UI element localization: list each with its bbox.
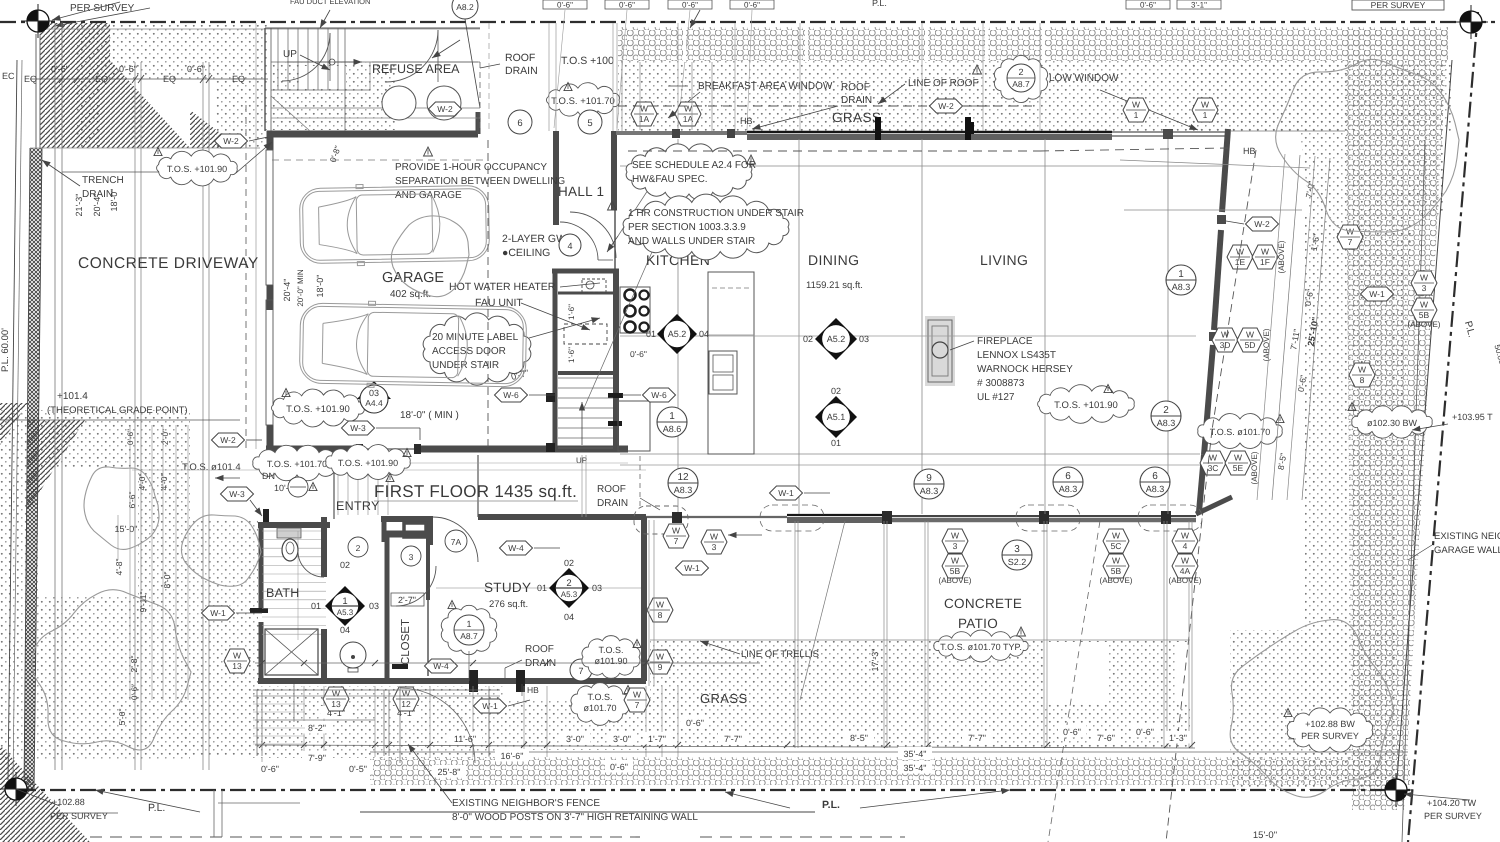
svg-text:17'-3": 17'-3" (870, 649, 880, 672)
svg-text:T.O.S +100: T.O.S +100 (561, 55, 614, 67)
svg-text:13: 13 (331, 699, 341, 709)
svg-text:04: 04 (564, 612, 574, 622)
top band extension verticals (677, 23, 679, 131)
floor grid verticals (677, 139, 679, 514)
svg-text:DRAIN: DRAIN (82, 189, 113, 200)
W-2 hex garage corner (215, 134, 248, 148)
svg-text:FAU DUCT ELEVATION: FAU DUCT ELEVATION (290, 0, 370, 6)
wall: closet (384, 531, 431, 538)
svg-text:GARAGE WALL: GARAGE WALL (1434, 545, 1500, 556)
wall: top window band (1112, 131, 1228, 133)
refuse dashed boundary (477, 112, 479, 134)
svg-text:DRAIN: DRAIN (841, 95, 872, 106)
svg-text:A8.3: A8.3 (920, 486, 939, 496)
svg-text:01: 01 (646, 329, 656, 339)
svg-text:01: 01 (831, 438, 841, 448)
svg-text:3'-0": 3'-0" (613, 734, 631, 744)
svg-text:LENNOX LS435T: LENNOX LS435T (977, 350, 1056, 361)
kitchen island (708, 272, 754, 454)
grass window posts (875, 117, 881, 140)
right garden horizontals (1120, 160, 1310, 168)
svg-text:12: 12 (401, 699, 411, 709)
hall wall extensions up (548, 23, 550, 131)
floor grid horizontals (620, 165, 1222, 167)
svg-text:T.O.S.: T.O.S. (587, 692, 612, 702)
refuse bins (382, 86, 416, 120)
hatched corner bottom-left (0, 745, 90, 842)
svg-text:A8.7: A8.7 (460, 631, 478, 641)
svg-text:5E: 5E (1233, 463, 1244, 473)
svg-text:4: 4 (567, 241, 572, 251)
svg-text:6: 6 (517, 118, 522, 129)
patio post verticals (794, 521, 796, 748)
svg-text:A8.2: A8.2 (456, 2, 474, 12)
right dashed line long (1212, 150, 1256, 430)
circle 1/A8.6 (657, 407, 687, 437)
svg-text:LOW WINDOW: LOW WINDOW (1049, 73, 1119, 84)
svg-text:04: 04 (699, 329, 709, 339)
svg-text:16'-6": 16'-6" (501, 751, 524, 761)
hatched bank mid-left (27, 420, 85, 512)
W-13 hex (224, 649, 250, 673)
svg-text:PER SURVEY: PER SURVEY (1424, 811, 1482, 821)
svg-text:A5.2: A5.2 (668, 329, 687, 339)
patio slant dashes (1048, 521, 1100, 842)
svg-text:1'-7": 1'-7" (648, 734, 666, 744)
svg-text:1: 1 (466, 619, 471, 629)
svg-text:ENTRY: ENTRY (336, 499, 380, 513)
svg-text:7: 7 (1348, 237, 1353, 247)
svg-text:4: 4 (1183, 541, 1188, 551)
svg-text:7: 7 (635, 700, 640, 710)
svg-text:8'-0": 8'-0" (162, 572, 172, 589)
fence line right (1396, 60, 1452, 792)
svg-text:(ABOVE): (ABOVE) (1169, 576, 1202, 585)
svg-text:WARNOCK HERSEY: WARNOCK HERSEY (977, 364, 1073, 375)
diamond A5.3 study (549, 568, 589, 608)
svg-text:A5.1: A5.1 (827, 412, 846, 422)
water heater dashed (582, 279, 606, 292)
svg-text:8: 8 (658, 610, 663, 620)
svg-text:W: W (951, 556, 959, 566)
svg-text:T.O.S. +101.90: T.O.S. +101.90 (1054, 400, 1118, 411)
+102.30 BW oval (1352, 406, 1432, 438)
svg-text:W: W (1209, 453, 1217, 463)
deck door arc 2 (386, 30, 438, 82)
svg-text:EC: EC (2, 71, 15, 81)
svg-text:W-2: W-2 (1254, 219, 1270, 229)
top dashed roofline (618, 105, 1032, 107)
svg-text:0'-6": 0'-6" (682, 1, 698, 10)
W-4 hex study top (500, 541, 533, 555)
svg-text:0'-6": 0'-6" (1140, 1, 1156, 10)
svg-text:03: 03 (369, 388, 379, 398)
shower (265, 629, 318, 675)
svg-text:(ABOVE): (ABOVE) (1250, 451, 1259, 484)
svg-text:0'-5": 0'-5" (349, 764, 367, 774)
note 1hr construction cloud (623, 194, 789, 260)
grass texture top band (618, 27, 1448, 61)
bottom wall windows W-13/W-12 (276, 677, 320, 685)
svg-text:ø101.70: ø101.70 (583, 703, 616, 713)
svg-text:25'-8": 25'-8" (438, 767, 461, 777)
note see schedule cloud (626, 144, 752, 200)
svg-text:0'-6": 0'-6" (630, 349, 647, 359)
W-6 hexes (495, 388, 528, 402)
svg-text:ROOF: ROOF (505, 52, 535, 64)
svg-text:T.O.S. ø101.4: T.O.S. ø101.4 (182, 462, 241, 473)
tos cloud below (571, 683, 629, 726)
svg-text:SEPARATION BETWEEN DWELLING: SEPARATION BETWEEN DWELLING (395, 176, 565, 187)
svg-text:EQ: EQ (232, 74, 245, 84)
svg-text:W: W (672, 526, 680, 536)
svg-text:SEE SCHEDULE A2.4 FOR: SEE SCHEDULE A2.4 FOR (632, 160, 756, 171)
svg-text:PER SURVEY: PER SURVEY (1371, 0, 1426, 10)
svg-text:(ABOVE): (ABOVE) (939, 576, 972, 585)
W-4 hex closet (425, 659, 458, 673)
svg-text:1'-6": 1'-6" (567, 304, 576, 320)
W-1 hex left (202, 606, 235, 620)
svg-text:●CEILING: ●CEILING (502, 247, 550, 259)
svg-text:HB: HB (527, 685, 539, 695)
svg-text:+102.88 BW: +102.88 BW (1305, 719, 1355, 729)
A8.7 callout grass (994, 55, 1047, 102)
svg-text:T.O.S.: T.O.S. (598, 645, 623, 655)
svg-text:9: 9 (926, 473, 932, 484)
dim ticks bottom (259, 742, 265, 748)
svg-text:T.O.S. ø101.70: T.O.S. ø101.70 (1210, 427, 1271, 437)
svg-text:W: W (1246, 330, 1254, 340)
svg-text:02: 02 (564, 558, 574, 568)
svg-text:A5.2: A5.2 (827, 334, 846, 344)
svg-text:HB: HB (740, 116, 753, 126)
svg-text:ROOF: ROOF (841, 82, 870, 93)
svg-text:T.O.S. +101.90: T.O.S. +101.90 (167, 164, 227, 174)
bottom dim texts row1 (321, 706, 351, 719)
svg-text:FIREPLACE: FIREPLACE (977, 336, 1033, 347)
survey point SW (0, 772, 33, 806)
circle 6/A8.3 a (1053, 467, 1083, 497)
svg-text:02: 02 (340, 560, 350, 570)
svg-text:DN: DN (262, 471, 275, 481)
trench drain strip (24, 148, 42, 790)
svg-text:0'-6": 0'-6" (261, 764, 279, 774)
svg-text:S2.2: S2.2 (1008, 557, 1027, 567)
svg-text:2: 2 (1163, 405, 1169, 416)
circle 6 (508, 110, 532, 134)
circle 12/A8.3 (668, 468, 698, 498)
svg-text:0'-6": 0'-6" (51, 64, 69, 74)
right wall hex clusters (1227, 245, 1253, 269)
svg-text:3: 3 (712, 542, 717, 552)
svg-text:4A: 4A (1180, 566, 1191, 576)
planting texture left band (0, 410, 190, 760)
tos 101.70 cloud top (547, 83, 620, 118)
svg-text:PER SURVEY: PER SURVEY (1301, 731, 1359, 741)
svg-text:W: W (1181, 556, 1189, 566)
svg-text:2: 2 (566, 578, 571, 589)
tos 101.90 cloud garage (272, 389, 365, 427)
svg-text:2'-7": 2'-7" (398, 595, 416, 605)
svg-text:1A: 1A (639, 114, 650, 124)
svg-text:(ABOVE): (ABOVE) (1277, 240, 1286, 273)
svg-text:18'-0" ( MIN ): 18'-0" ( MIN ) (400, 410, 459, 421)
bottom dim lines (255, 662, 760, 664)
tree blob right bottom (1230, 620, 1394, 798)
cloud 1/A8.7 study (441, 605, 496, 654)
svg-text:STUDY: STUDY (484, 580, 531, 595)
svg-text:W-3: W-3 (350, 423, 366, 433)
wall: study right (641, 517, 647, 681)
wall: garage right (553, 131, 559, 225)
diamond A5.3 bath (325, 586, 365, 626)
stove (620, 287, 650, 333)
survey point SE (1379, 773, 1413, 807)
svg-text:1'-3": 1'-3" (1169, 733, 1187, 743)
dining verticals light (620, 335, 1196, 337)
svg-text:FAU UNIT: FAU UNIT (475, 297, 523, 309)
svg-text:W-1: W-1 (210, 608, 226, 618)
svg-text:W: W (1420, 273, 1428, 283)
svg-text:(THEORETICAL GRADE POINT): (THEORETICAL GRADE POINT) (47, 405, 188, 416)
svg-text:W-4: W-4 (433, 661, 449, 671)
svg-text:03: 03 (592, 583, 602, 593)
svg-text:3: 3 (953, 541, 958, 551)
svg-text:W: W (656, 652, 664, 662)
svg-text:7'-6": 7'-6" (1097, 733, 1115, 743)
svg-text:+101.4: +101.4 (57, 391, 88, 402)
W hex stacks below wall (942, 529, 968, 553)
svg-text:3C: 3C (1208, 463, 1219, 473)
svg-text:1: 1 (669, 411, 675, 422)
svg-text:3: 3 (1014, 544, 1020, 555)
W-2 hex grass (930, 99, 963, 113)
car 1 (299, 182, 489, 266)
property line right slanted (1408, 12, 1478, 842)
svg-text:(ABOVE): (ABOVE) (1408, 320, 1441, 329)
car 2 (299, 300, 526, 390)
svg-text:6'-6": 6'-6" (127, 492, 137, 509)
svg-text:DINING: DINING (808, 252, 859, 268)
svg-text:0'-6": 0'-6" (1063, 727, 1081, 737)
svg-text:T.O.S. +101.70: T.O.S. +101.70 (267, 459, 327, 469)
top small dim boxes (543, 0, 587, 9)
svg-text:W-1: W-1 (1369, 289, 1385, 299)
closet dim (391, 593, 424, 606)
wall: top main (breakfast) (616, 131, 747, 135)
svg-text:2'-0": 2'-0" (161, 429, 170, 445)
svg-text:W: W (1112, 556, 1120, 566)
svg-text:1E: 1E (1235, 257, 1246, 267)
circle 7 (570, 659, 592, 681)
svg-text:W: W (656, 600, 664, 610)
roofline dash below wall (628, 150, 1040, 152)
1hr separation dashed (487, 140, 489, 449)
roof drain dashed box (634, 506, 688, 534)
svg-text:3'-0": 3'-0" (566, 734, 584, 744)
svg-text:PER SURVEY: PER SURVEY (50, 811, 108, 821)
svg-text:0'-6": 0'-6" (619, 1, 635, 10)
svg-text:1 HR CONSTRUCTION UNDER STAIR: 1 HR CONSTRUCTION UNDER STAIR (628, 208, 804, 219)
svg-text:EXISTING NEIGH: EXISTING NEIGH (1434, 531, 1500, 542)
svg-text:ø101.90: ø101.90 (594, 656, 627, 666)
svg-text:0'-6": 0'-6" (1136, 727, 1154, 737)
bottom secondary dashed line (90, 836, 640, 838)
svg-text:A5.3: A5.3 (337, 608, 354, 617)
left P.L. slanted (8, 60, 17, 780)
wall: top main dark (747, 131, 1112, 133)
svg-text:3: 3 (1422, 283, 1427, 293)
svg-text:W: W (633, 690, 641, 700)
wall: garage bottom (266, 446, 628, 453)
garage bottom window W-3 (362, 445, 414, 453)
svg-text:W: W (684, 104, 692, 114)
garage door panels (266, 150, 273, 285)
W13/W12 hexes (323, 687, 349, 711)
kitchen door arc from hall (570, 212, 616, 258)
tos 101.90 cloud living (1038, 385, 1135, 424)
svg-text:CONCRETE: CONCRETE (944, 596, 1022, 611)
wall: kitchen left (613, 271, 619, 452)
circle 2/A8.3 right (1151, 401, 1181, 431)
svg-text:6: 6 (1065, 471, 1071, 482)
svg-text:0'-6": 0'-6" (686, 718, 704, 728)
svg-text:0'-6": 0'-6" (744, 1, 760, 10)
svg-text:ROOF: ROOF (597, 484, 626, 495)
svg-text:W: W (1201, 100, 1209, 110)
label CONCRETE PATIO tos (934, 630, 1028, 662)
svg-text:LINE OF TRELLIS: LINE OF TRELLIS (741, 649, 819, 660)
svg-text:11'-6": 11'-6" (454, 734, 476, 744)
pedestal sink (340, 642, 366, 668)
W-7 hex (624, 688, 650, 712)
toilet tank (277, 528, 301, 538)
svg-text:P.L.: P.L. (872, 0, 887, 8)
wall: bottom living (sliders) (787, 514, 887, 516)
fireplace (925, 316, 955, 386)
tos cloud right (1198, 414, 1282, 449)
svg-text:2: 2 (356, 543, 361, 553)
W hexes right of study (647, 598, 673, 622)
leader diagonals hall (584, 252, 652, 408)
svg-text:W: W (1112, 531, 1120, 541)
svg-text:ø102.30 BW: ø102.30 BW (1367, 418, 1418, 428)
survey point NW (21, 4, 55, 38)
concrete texture bottom band (370, 757, 1410, 785)
breakfast verticals (639, 62, 641, 130)
svg-text:W-3: W-3 (229, 489, 245, 499)
circle 5 (578, 110, 602, 134)
W-3 hex left (221, 487, 254, 501)
svg-text:GARAGE: GARAGE (382, 270, 444, 286)
entry door arc (433, 517, 478, 562)
shrub left small (391, 216, 469, 297)
svg-text:20'-4": 20'-4" (282, 279, 292, 302)
svg-text:REFUSE AREA: REFUSE AREA (372, 62, 460, 76)
svg-text:7'-7": 7'-7" (968, 733, 986, 743)
svg-text:5: 5 (587, 118, 592, 129)
svg-text:A8.3: A8.3 (1172, 282, 1191, 292)
svg-text:P.L.: P.L. (822, 799, 840, 811)
svg-text:UL #127: UL #127 (977, 392, 1015, 403)
svg-text:P.L. 60.00': P.L. 60.00' (0, 328, 11, 372)
svg-text:UNDER STAIR: UNDER STAIR (432, 360, 499, 371)
svg-text:13: 13 (232, 661, 242, 671)
wall: garage left stubs (267, 131, 274, 150)
svg-text:W: W (1261, 247, 1269, 257)
svg-text:A8.3: A8.3 (1059, 484, 1078, 494)
svg-text:0'-6": 0'-6" (126, 429, 135, 445)
svg-text:A4.4: A4.4 (365, 398, 383, 408)
svg-text:8'-0" WOOD POSTS ON 3'-7" HIGH: 8'-0" WOOD POSTS ON 3'-7" HIGH RETAINING… (452, 812, 698, 823)
svg-text:T.O.S. +101.70: T.O.S. +101.70 (551, 96, 615, 107)
svg-text:LIVING: LIVING (980, 252, 1028, 268)
svg-text:W: W (233, 651, 241, 661)
svg-text:GRASS: GRASS (700, 691, 748, 706)
svg-text:+100.48 BW: +100.48 BW (1374, 0, 1421, 1)
survey vertical lines (35, 34, 37, 148)
wall: entry porch (381, 516, 433, 522)
svg-text:FIRST FLOOR 1435 sq.ft.: FIRST FLOOR 1435 sq.ft. (374, 482, 577, 501)
svg-text:8'-2": 8'-2" (308, 723, 326, 733)
tree blob right top (1276, 59, 1459, 232)
svg-text:W-2: W-2 (220, 435, 236, 445)
svg-text:EQ: EQ (163, 74, 176, 84)
shrub bath left (84, 467, 159, 550)
diamond A5.2 dining (815, 318, 857, 360)
svg-text:1159.21 sq.ft.: 1159.21 sq.ft. (806, 280, 863, 291)
svg-text:5B: 5B (950, 566, 961, 576)
svg-text:T.O.S. ø101.70 TYP.: T.O.S. ø101.70 TYP. (940, 642, 1022, 652)
svg-text:W: W (1236, 247, 1244, 257)
svg-text:4'-0": 4'-0" (137, 474, 147, 491)
svg-text:W: W (1132, 100, 1140, 110)
circle 1/A8.3 right (1166, 265, 1196, 295)
tos 101.4 arrow (215, 477, 240, 479)
7A circle (445, 530, 467, 552)
svg-text:CONCRETE DRIVEWAY: CONCRETE DRIVEWAY (78, 255, 259, 272)
W-1A hexes (631, 102, 657, 126)
front porch lines bottom-left (253, 689, 500, 691)
grass texture right band (1186, 60, 1445, 131)
svg-text:1: 1 (1178, 269, 1184, 280)
svg-text:18'-0": 18'-0" (315, 275, 325, 298)
svg-text:5'-0": 5'-0" (117, 709, 127, 726)
W-1 + 5B cluster right (1361, 287, 1394, 301)
svg-text:1: 1 (1134, 110, 1139, 120)
+102.88 BW cloud right (1287, 708, 1372, 752)
svg-text:W: W (710, 532, 718, 542)
3/S2.2 circle (1002, 540, 1032, 570)
FAU dashed rect (564, 324, 607, 344)
svg-text:W-2: W-2 (223, 136, 239, 146)
svg-text:2: 2 (1018, 67, 1023, 77)
W-2 hex right (1246, 217, 1279, 231)
porch step ladder (253, 703, 305, 705)
wall: hall verticals (611, 131, 617, 210)
svg-text:HW&FAU SPEC.: HW&FAU SPEC. (632, 174, 708, 185)
svg-text:UP: UP (283, 49, 297, 60)
svg-text:02: 02 (803, 334, 813, 344)
tos cloud garage corner (157, 150, 238, 186)
svg-text:7'-9": 7'-9" (308, 753, 326, 763)
svg-text:35'-4": 35'-4" (904, 749, 927, 759)
svg-text:9'-11": 9'-11" (138, 591, 148, 612)
svg-text:A8.7: A8.7 (1012, 79, 1030, 89)
svg-text:7: 7 (674, 536, 679, 546)
svg-text:0'-6": 0'-6" (557, 1, 573, 10)
second tos cloud (326, 445, 410, 480)
